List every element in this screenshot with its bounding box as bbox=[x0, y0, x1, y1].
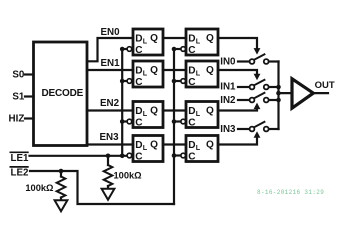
svg-text:L: L bbox=[196, 37, 201, 46]
svg-text:Q: Q bbox=[206, 65, 214, 76]
svg-text:LE2: LE2 bbox=[11, 168, 30, 179]
svg-text:Q: Q bbox=[206, 33, 214, 44]
svg-text:D: D bbox=[135, 65, 142, 76]
svg-text:Q: Q bbox=[150, 140, 158, 151]
svg-text:IN1: IN1 bbox=[220, 82, 236, 93]
svg-text:C: C bbox=[188, 45, 196, 56]
svg-text:L: L bbox=[143, 109, 148, 118]
svg-text:L: L bbox=[196, 143, 201, 152]
svg-text:Q: Q bbox=[150, 33, 158, 44]
svg-text:LE1: LE1 bbox=[11, 153, 30, 164]
svg-text:L: L bbox=[143, 69, 148, 78]
svg-text:100kΩ: 100kΩ bbox=[25, 183, 54, 193]
svg-text:C: C bbox=[135, 117, 143, 128]
svg-text:Q: Q bbox=[206, 106, 214, 117]
svg-text:HIZ: HIZ bbox=[9, 114, 25, 125]
svg-text:D: D bbox=[135, 33, 142, 44]
svg-text:IN0: IN0 bbox=[220, 57, 236, 68]
svg-text:S1: S1 bbox=[12, 92, 25, 103]
svg-text:Q: Q bbox=[150, 65, 158, 76]
svg-text:Q: Q bbox=[206, 140, 214, 151]
svg-text:C: C bbox=[135, 151, 143, 162]
svg-text:L: L bbox=[143, 143, 148, 152]
svg-text:D: D bbox=[135, 140, 142, 151]
svg-text:L: L bbox=[143, 37, 148, 46]
svg-text:S0: S0 bbox=[12, 70, 25, 81]
svg-text:OUT: OUT bbox=[315, 80, 335, 91]
svg-text:C: C bbox=[135, 77, 143, 88]
svg-text:D: D bbox=[188, 106, 195, 117]
svg-text:EN0: EN0 bbox=[100, 27, 120, 38]
svg-text:D: D bbox=[188, 65, 195, 76]
svg-text:L: L bbox=[196, 109, 201, 118]
svg-text:IN2: IN2 bbox=[220, 95, 236, 106]
svg-text:C: C bbox=[188, 117, 196, 128]
svg-text:100kΩ: 100kΩ bbox=[114, 171, 143, 181]
svg-text:EN3: EN3 bbox=[99, 132, 119, 143]
svg-text:D: D bbox=[135, 106, 142, 117]
svg-text:L: L bbox=[196, 69, 201, 78]
svg-text:C: C bbox=[188, 151, 196, 162]
svg-text:EN2: EN2 bbox=[100, 98, 120, 109]
svg-text:Q: Q bbox=[150, 106, 158, 117]
svg-text:C: C bbox=[188, 77, 196, 88]
svg-text:C: C bbox=[135, 45, 143, 56]
svg-text:DECODE: DECODE bbox=[42, 88, 84, 99]
svg-text:EN1: EN1 bbox=[100, 58, 120, 69]
svg-text:D: D bbox=[188, 140, 195, 151]
svg-text:8-16-201216 31:29: 8-16-201216 31:29 bbox=[257, 189, 324, 196]
svg-text:IN3: IN3 bbox=[220, 124, 236, 135]
svg-text:D: D bbox=[188, 33, 195, 44]
